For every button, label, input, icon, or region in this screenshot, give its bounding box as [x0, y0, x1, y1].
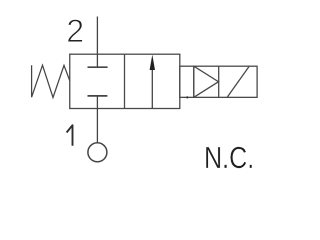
svg-text:2: 2 [66, 13, 84, 49]
svg-text:N.C.: N.C. [204, 140, 254, 175]
